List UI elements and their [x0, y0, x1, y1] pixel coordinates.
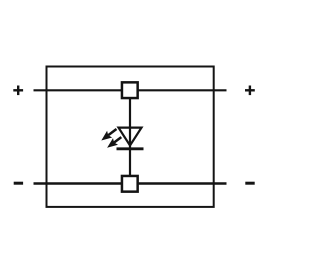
LED D1 cathode bar [117, 147, 144, 150]
terminal clamp (bottom square) [122, 176, 138, 192]
label - left [14, 182, 23, 185]
LED emission arrow 1 [101, 129, 116, 141]
wire: vertical branch through LED [129, 90, 131, 184]
label - right [245, 182, 254, 185]
enclosure box (component outline) [47, 67, 214, 207]
wire: top positive rail [34, 89, 227, 91]
label + right [245, 86, 255, 96]
wire: bottom negative rail [34, 182, 227, 184]
terminal clamp (top square) [122, 82, 138, 98]
LED emission arrow 2 [107, 137, 121, 148]
label + left [13, 86, 23, 96]
LED D1 triangle (anode) [119, 128, 142, 146]
